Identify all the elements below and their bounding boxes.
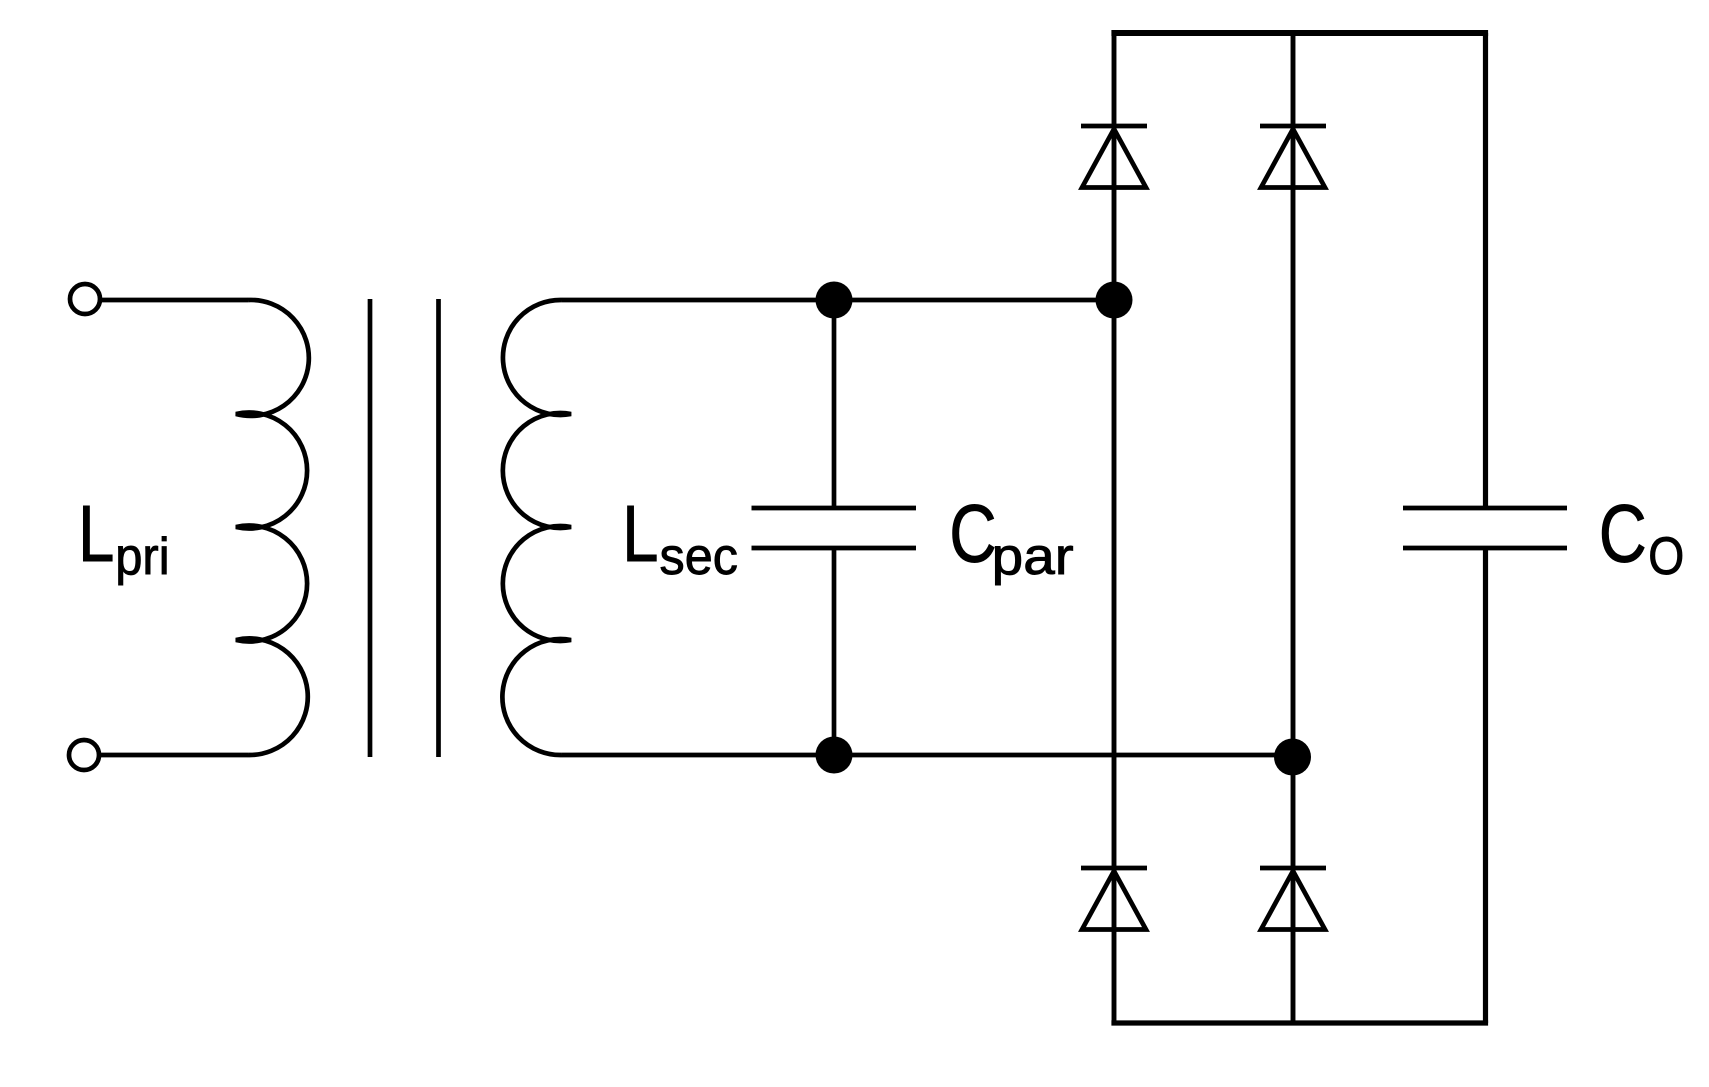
bridge middle vertical wire xyxy=(1291,33,1296,1023)
svg-text:C: C xyxy=(949,489,996,580)
wire primary top lead xyxy=(100,298,248,303)
wire secondary top rail xyxy=(562,298,1114,303)
diode D3 bottom-left xyxy=(1081,868,1147,930)
bridge bottom rail xyxy=(1111,1020,1488,1025)
capacitor Co plates xyxy=(1403,508,1567,548)
terminal bottom-left xyxy=(69,740,99,770)
diode D2 top-right xyxy=(1260,126,1326,188)
wire secondary bottom rail xyxy=(562,753,1293,758)
terminal top-left xyxy=(70,284,100,314)
svg-text:par: par xyxy=(992,528,1074,586)
diode D1 top-left xyxy=(1081,126,1147,188)
diode D4 bottom-right xyxy=(1260,868,1326,930)
bridge left vertical wire xyxy=(1112,33,1117,1023)
inductor Lpri winding xyxy=(236,300,309,755)
node top-right junction dot xyxy=(1096,282,1133,319)
wire primary bottom lead xyxy=(100,753,248,758)
capacitor Cpar plates xyxy=(752,508,917,548)
svg-text:L: L xyxy=(78,489,114,578)
node bottom-right junction dot xyxy=(1274,739,1311,776)
transformer core line right xyxy=(436,299,441,757)
wire Co bottom stub xyxy=(1483,548,1488,1023)
wire Co top stub xyxy=(1483,33,1488,508)
svg-text:C: C xyxy=(1599,489,1647,580)
svg-text:L: L xyxy=(622,489,658,578)
wire Cpar bottom stub xyxy=(832,548,837,755)
bridge top rail xyxy=(1111,30,1488,36)
svg-text:sec: sec xyxy=(660,528,738,586)
node bottom-left junction dot xyxy=(816,737,853,774)
transformer core line left xyxy=(368,299,373,757)
svg-text:pri: pri xyxy=(115,528,169,586)
svg-text:O: O xyxy=(1648,527,1684,586)
inductor Lsec winding xyxy=(502,300,571,755)
node top-left junction dot xyxy=(816,282,853,319)
wire Cpar top stub xyxy=(832,300,837,508)
